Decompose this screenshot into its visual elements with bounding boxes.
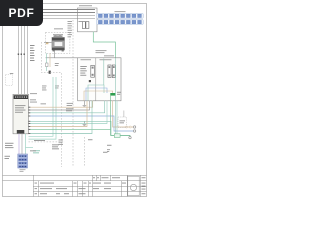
inverter output wire to box2 — [46, 52, 78, 58]
side notes right of dashed box — [68, 21, 83, 37]
ground wire from combiner (green) — [93, 32, 115, 58]
marks below battery — [20, 169, 26, 171]
stamp circle — [130, 184, 136, 190]
ground symbol 1 — [83, 101, 87, 107]
wire green drop — [111, 96, 131, 137]
band labels — [66, 108, 74, 111]
wire tan feeder long — [30, 101, 93, 107]
title block text marks — [35, 177, 146, 194]
inverter U2 icon — [52, 35, 65, 52]
left compartment text — [80, 66, 87, 76]
breaker Q2 — [108, 65, 111, 78]
PV string row 1 outline — [97, 13, 144, 18]
wire riser 4 — [26, 19, 28, 95]
wire green roof drop — [93, 32, 115, 58]
wire teal battery stub — [26, 147, 34, 149]
DC wire labels — [42, 63, 59, 90]
AC bus lines top — [18, 10, 95, 19]
wire bus L2 — [21, 12, 95, 14]
wire teal battery — [25, 134, 27, 154]
breaker S1 in combiner — [82, 22, 85, 29]
stub above outlet zone — [123, 111, 125, 118]
junction ticks on risers — [18, 54, 25, 55]
panel text — [15, 105, 26, 113]
wire riser 2 — [20, 13, 22, 95]
internal corner wires — [84, 58, 115, 134]
wire tan DC2 — [49, 53, 51, 67]
small inline device on DC1 — [46, 63, 48, 67]
twist connector circles on tan run — [126, 126, 128, 128]
note marks below — [107, 149, 110, 152]
wire bus L3 — [24, 15, 95, 17]
labels above compartments — [81, 55, 115, 60]
wire teal feeder 2 — [30, 121, 131, 135]
breaker Q3 — [112, 65, 115, 78]
load connection block — [114, 134, 120, 138]
equipment box2 (battery inverter cabinet) — [78, 58, 121, 101]
junction device at dashed corner — [49, 71, 51, 74]
wire teal feeder 3 — [30, 101, 108, 124]
small dashed box left margin — [6, 75, 13, 86]
dashed arrow line bottom — [29, 141, 65, 143]
wire internal blue — [86, 88, 107, 101]
wire tag labels column — [30, 45, 35, 61]
panel breaker row top — [14, 95, 28, 99]
wire teal battery run 1 — [29, 77, 54, 136]
receptacle R1 — [133, 126, 135, 128]
title block — [3, 175, 147, 196]
battery bank B1 — [18, 154, 28, 168]
breaker S2 in combiner — [86, 22, 89, 29]
wire inverter AC out — [55, 52, 78, 58]
inverter label above — [53, 28, 63, 35]
wire teal feeder 4 — [30, 101, 93, 134]
wire grey battery — [21, 134, 23, 154]
wire teal DC1 — [46, 53, 48, 71]
stamp cell — [128, 176, 139, 196]
PV array label — [115, 10, 126, 13]
wire blue feeder — [30, 116, 135, 131]
dashed outlet zone — [118, 117, 127, 128]
page background — [0, 0, 149, 198]
connector stubs at panel — [28, 107, 30, 134]
wire internal teal — [88, 85, 104, 101]
wire internal tan — [84, 91, 113, 101]
wire riser 1 — [17, 10, 19, 95]
dashed zone line A — [42, 42, 62, 167]
wire teal feeder 1 — [30, 101, 105, 113]
note text near green wire — [96, 50, 107, 53]
wire purple battery — [18, 134, 20, 154]
label above combiner — [79, 4, 92, 7]
PV modules row 1 — [98, 14, 141, 17]
wire grey feeder — [30, 101, 90, 110]
ground symbol 2 — [83, 121, 87, 126]
wire teal pair to load block — [116, 101, 118, 134]
divider — [95, 58, 97, 101]
battery labels — [5, 143, 14, 159]
dashed zone line B — [72, 20, 74, 167]
wire stub into inverter — [44, 42, 52, 44]
main panel box (left) — [13, 94, 29, 134]
combiner box U1 (top) — [78, 8, 98, 32]
receptacle R2 — [133, 130, 135, 132]
labels right of panel top — [30, 93, 73, 106]
wire internal teal riser — [103, 59, 105, 86]
PV modules row 2 — [98, 20, 141, 23]
inverter dashed boundary — [45, 32, 70, 53]
wire riser 3 — [23, 16, 25, 95]
panel dark row bottom — [17, 130, 25, 133]
receptacle R3 — [129, 136, 131, 138]
wire bus N — [27, 18, 95, 20]
wire tan outlet run — [113, 101, 135, 127]
misc small notes bottom — [30, 139, 112, 152]
left riser verticals — [18, 10, 27, 95]
breaker Q1 — [91, 65, 95, 77]
wire teal through box — [114, 58, 116, 134]
warning mark left of inverter — [46, 42, 48, 44]
wire tan feeder 2 — [30, 101, 88, 127]
wire teal battery run 2 — [29, 77, 57, 139]
PV string row 2 outline — [97, 20, 144, 25]
PDF badge — [0, 0, 43, 26]
green terminal bar — [110, 93, 115, 96]
wire bus L1 — [18, 9, 95, 11]
distribution wire band — [30, 96, 136, 137]
border frame — [3, 4, 147, 197]
wire green feeder — [30, 128, 111, 130]
dashed zone line C — [84, 137, 86, 167]
